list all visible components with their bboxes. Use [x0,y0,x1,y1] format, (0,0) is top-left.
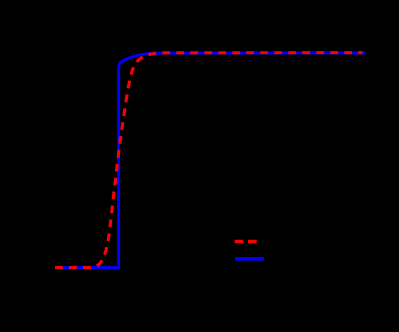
legend blue solid line sample [235,257,264,261]
legend red dashed line sample [235,240,257,244]
red dashed sigmoid curve [55,53,362,268]
blue solid step-response curve [55,53,366,268]
